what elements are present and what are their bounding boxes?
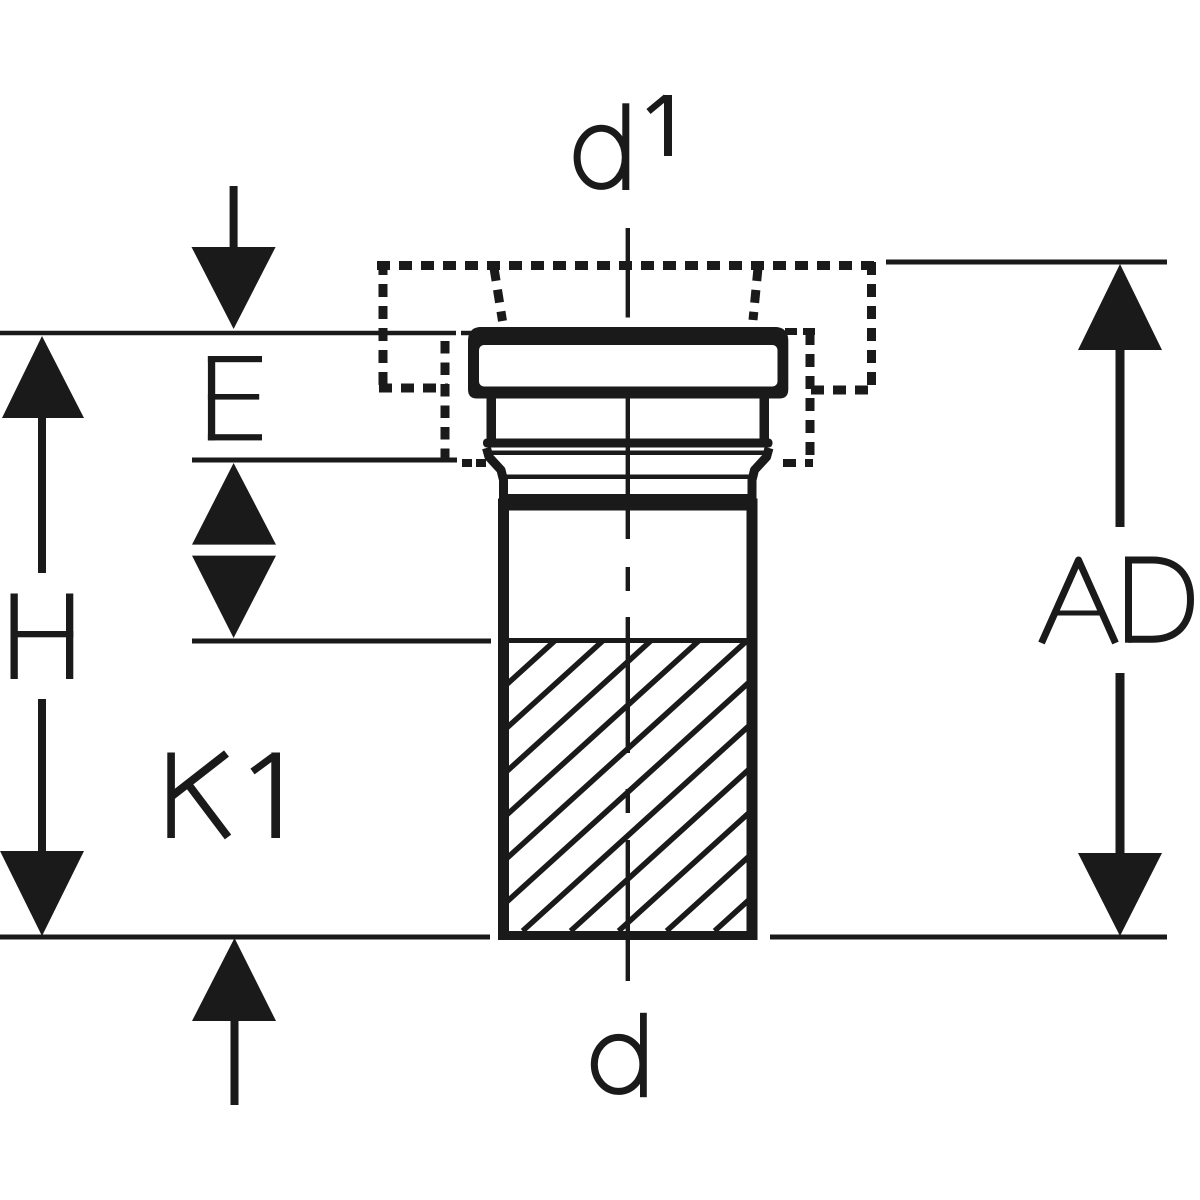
dimension line AD top bbox=[886, 260, 1167, 265]
diamond arrow E-K1 upper triangle bbox=[192, 463, 276, 545]
dashed continuation of E top line left bbox=[461, 331, 471, 336]
dimension line E bottom bbox=[192, 458, 457, 463]
socket thin ring C bbox=[506, 494, 751, 499]
arrow K1 up (below datum) bbox=[192, 938, 276, 1105]
diamond arrow E-K1 lower triangle bbox=[192, 556, 276, 638]
dashed envelope top edge bbox=[377, 261, 875, 270]
socket cap interior bbox=[479, 345, 778, 387]
dashed envelope right inner edge bbox=[806, 332, 815, 462]
dimension line E top bbox=[0, 331, 456, 336]
flare left edge bbox=[487, 448, 504, 512]
dashed piece at E bottom left bbox=[462, 459, 486, 467]
arrow E down bbox=[192, 186, 276, 329]
socket neck right wall bbox=[760, 394, 770, 440]
socket thin ring A bbox=[492, 451, 764, 456]
dashed envelope right outer edge bbox=[867, 262, 876, 392]
label E bbox=[208, 356, 262, 440]
dashed continuation of E top line right bbox=[785, 328, 816, 335]
bottom datum line left bbox=[0, 935, 490, 940]
arrow AD up bbox=[1078, 264, 1162, 527]
flare right edge bbox=[752, 448, 769, 512]
pipe left wall bbox=[498, 508, 509, 940]
label d1 (top diameter) bbox=[577, 95, 672, 190]
socket thin ring B bbox=[503, 475, 754, 480]
dashed envelope right bottom edge bbox=[811, 386, 876, 395]
socket cap outer bbox=[468, 327, 788, 399]
arrow H down bbox=[0, 699, 84, 936]
label d (bottom diameter) bbox=[640, 1013, 647, 1097]
centerline bbox=[626, 228, 630, 981]
hatch boundary line bbox=[509, 638, 747, 643]
dashed piece at E bottom right bbox=[783, 459, 813, 467]
pipe top edge bbox=[498, 499, 758, 511]
arrow H up bbox=[2, 336, 84, 573]
dashed funnel left slant bbox=[494, 268, 503, 321]
label H bbox=[11, 594, 74, 680]
bottom datum line right bbox=[770, 935, 1167, 940]
dashed funnel right slant bbox=[753, 268, 758, 320]
label AD bbox=[1042, 557, 1191, 644]
socket bead bbox=[483, 439, 773, 448]
hatched spigot section bbox=[235, 641, 1035, 931]
pipe bottom edge bbox=[498, 931, 758, 940]
dashed envelope left outer edge bbox=[379, 262, 388, 391]
pipe right wall bbox=[747, 508, 758, 940]
dashed envelope left bottom edge bbox=[379, 384, 448, 393]
socket neck left wall bbox=[487, 394, 497, 440]
dimension line K1 top bbox=[192, 639, 491, 644]
label K1 bbox=[167, 753, 280, 839]
dashed envelope left inner edge bbox=[441, 341, 450, 466]
arrow AD down bbox=[1078, 673, 1162, 936]
